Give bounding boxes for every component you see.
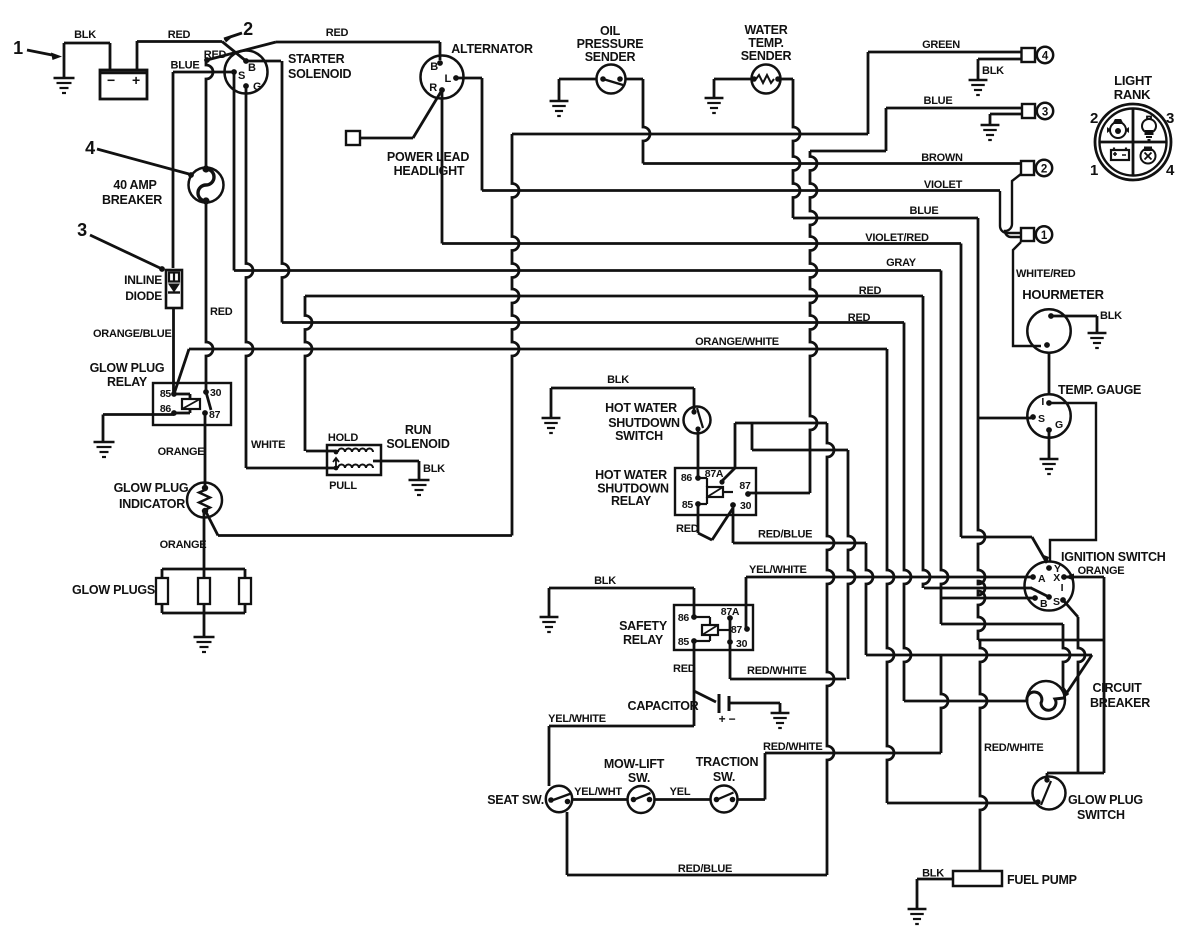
wire solenoid B to bus	[246, 60, 281, 63]
svg-text:INLINE: INLINE	[124, 273, 162, 287]
wire water temp sender to BLUE bus	[781, 78, 794, 81]
svg-text:I: I	[1061, 582, 1064, 594]
svg-text:2: 2	[243, 19, 253, 39]
svg-text:YEL/WHT: YEL/WHT	[574, 786, 622, 798]
svg-text:TRACTION: TRACTION	[696, 755, 759, 769]
wire indicator to green feed bus	[206, 512, 218, 536]
svg-text:RUN: RUN	[405, 423, 432, 437]
svg-text:S: S	[1038, 413, 1045, 425]
ground glow plugs	[203, 613, 206, 636]
ground temp gauge G	[1048, 430, 1051, 458]
svg-text:ORANGE/WHITE: ORANGE/WHITE	[695, 336, 779, 348]
svg-text:SOLENOID: SOLENOID	[288, 67, 352, 81]
wire glow plug switch top to orange	[1046, 773, 1049, 780]
svg-text:BLUE: BLUE	[924, 95, 953, 107]
glow plug relay switch arm	[206, 392, 211, 410]
svg-text:85: 85	[160, 388, 172, 400]
svg-text:30: 30	[740, 500, 752, 512]
wire switch to HWS relay 86	[697, 429, 700, 478]
wire RED drop	[923, 296, 930, 588]
svg-text:RED: RED	[673, 663, 696, 675]
svg-text:BLK: BLK	[594, 575, 616, 587]
wire drop 87A bus	[827, 423, 834, 875]
wire breaker to ignition row	[941, 623, 1063, 626]
svg-text:SEAT SW.: SEAT SW.	[487, 793, 544, 807]
svg-text:+: +	[719, 712, 726, 726]
wire breaker feed row	[904, 700, 1028, 703]
connector 1	[1021, 228, 1034, 241]
svg-text:PULL: PULL	[329, 480, 357, 492]
battery	[100, 70, 147, 99]
svg-text:X: X	[1053, 572, 1060, 584]
svg-text:B: B	[430, 61, 438, 73]
wire ignition B row	[941, 597, 1035, 600]
svg-text:ORANGE: ORANGE	[158, 446, 205, 458]
svg-text:40 AMP: 40 AMP	[113, 178, 156, 192]
svg-text:A: A	[1038, 573, 1046, 585]
wire VIOLET/RED drop	[960, 244, 963, 538]
svg-text:GLOW PLUGS: GLOW PLUGS	[72, 583, 155, 597]
svg-text:YEL/WHITE: YEL/WHITE	[749, 564, 807, 576]
svg-text:1: 1	[1041, 230, 1048, 242]
wire traction to RED/WHITE row	[738, 798, 766, 801]
wire ORANGE/WHITE from relay 85	[174, 349, 189, 394]
wire oil sender to BROWN bus	[625, 78, 643, 81]
svg-text:G: G	[253, 81, 261, 93]
safety relay coil	[702, 625, 718, 635]
svg-text:GLOW PLUG: GLOW PLUG	[1068, 793, 1143, 807]
connector 4	[1022, 48, 1036, 62]
svg-text:RELAY: RELAY	[611, 494, 652, 508]
svg-text:RED/BLUE: RED/BLUE	[678, 863, 732, 875]
svg-text:86: 86	[678, 612, 690, 624]
wire BLUE drop to temp gauge S	[978, 218, 985, 640]
svg-text:85: 85	[682, 499, 694, 511]
svg-text:S: S	[1053, 596, 1060, 608]
svg-text:ORANGE: ORANGE	[1078, 565, 1125, 577]
wire alternator R down	[441, 90, 444, 244]
wire BLUE solenoid S down / inline diode feed	[172, 72, 175, 268]
svg-text:GREEN: GREEN	[922, 39, 960, 51]
svg-text:GRAY: GRAY	[886, 257, 917, 269]
svg-text:87A: 87A	[721, 606, 740, 618]
svg-text:SENDER: SENDER	[741, 49, 792, 63]
svg-text:B: B	[248, 62, 256, 74]
starter solenoid	[225, 51, 268, 94]
svg-text:RED: RED	[168, 29, 191, 41]
ground glow plug relay 86	[103, 413, 174, 416]
wire to hold coil	[306, 450, 336, 453]
wire blue bus jog	[810, 150, 886, 153]
svg-text:+: +	[132, 72, 140, 88]
svg-text:SW.: SW.	[713, 770, 735, 784]
svg-text:HOURMETER: HOURMETER	[1022, 287, 1104, 302]
light rank bulb icon quadrant 4	[1141, 148, 1156, 164]
svg-text:OIL: OIL	[600, 24, 621, 38]
svg-text:87: 87	[209, 409, 221, 421]
svg-text:HOT WATER: HOT WATER	[595, 468, 667, 482]
svg-text:SOLENOID: SOLENOID	[386, 437, 450, 451]
svg-text:TEMP. GAUGE: TEMP. GAUGE	[1058, 383, 1141, 397]
svg-text:WHITE/RED: WHITE/RED	[1016, 268, 1076, 280]
wire temp gauge I loop to ignition Y	[1049, 403, 1096, 562]
svg-text:YEL/WHITE: YEL/WHITE	[548, 713, 606, 725]
wire RED breaker feed	[206, 60, 213, 169]
svg-text:I: I	[1041, 396, 1044, 408]
svg-text:INDICATOR: INDICATOR	[119, 497, 185, 511]
svg-text:4: 4	[1042, 51, 1049, 63]
svg-text:HEADLIGHT: HEADLIGHT	[394, 164, 465, 178]
svg-text:L: L	[445, 73, 452, 85]
svg-text:S: S	[238, 70, 245, 82]
run solenoid pull coil	[338, 465, 373, 468]
svg-text:WHITE: WHITE	[251, 439, 285, 451]
svg-text:WATER: WATER	[745, 23, 788, 37]
svg-text:BLK: BLK	[982, 65, 1004, 77]
ground oil pressure sender	[559, 78, 597, 81]
svg-text:RELAY: RELAY	[107, 375, 148, 389]
svg-text:B: B	[1040, 598, 1048, 610]
ground water temp sender	[714, 78, 752, 81]
svg-text:87: 87	[731, 624, 743, 636]
svg-text:ORANGE/BLUE: ORANGE/BLUE	[93, 328, 172, 340]
svg-text:BREAKER: BREAKER	[1090, 696, 1150, 710]
HWS relay coil	[707, 487, 723, 497]
svg-text:4: 4	[85, 138, 95, 158]
svg-text:87: 87	[739, 480, 751, 492]
wire WHITE solenoid G down	[246, 86, 253, 468]
svg-text:SWITCH: SWITCH	[1077, 808, 1125, 822]
ground battery negative	[63, 43, 66, 77]
wire ORANGE/WHITE drop	[887, 349, 894, 803]
wire drop 450 bus	[848, 450, 855, 679]
wire 87A up	[722, 468, 735, 481]
wire connector 2 to connector 1	[1005, 174, 1021, 237]
wire BLUE conn3 drop to HWS relay 87	[810, 151, 817, 493]
svg-text:HOT WATER: HOT WATER	[605, 401, 677, 415]
svg-text:CAPACITOR: CAPACITOR	[628, 699, 699, 713]
light rank battery icon quadrant 1	[1111, 148, 1129, 161]
wire VIOLET alternator L	[456, 77, 482, 80]
svg-text:FUEL PUMP: FUEL PUMP	[1007, 873, 1077, 887]
run solenoid hold coil	[338, 449, 373, 452]
ignition switch arm	[1031, 588, 1049, 597]
svg-text:SW.: SW.	[628, 771, 650, 785]
svg-text:SHUTDOWN: SHUTDOWN	[608, 416, 680, 430]
svg-text:MOW-LIFT: MOW-LIFT	[604, 757, 665, 771]
svg-text:4: 4	[1166, 162, 1175, 179]
svg-text:SWITCH: SWITCH	[615, 429, 663, 443]
svg-text:POWER LEAD: POWER LEAD	[387, 150, 469, 164]
svg-text:RED/BLUE: RED/BLUE	[758, 529, 812, 541]
svg-text:CIRCUIT: CIRCUIT	[1093, 681, 1143, 695]
wire RED/BLUE drop to breaker	[866, 543, 873, 655]
connector 3	[1022, 104, 1035, 118]
svg-text:BLK: BLK	[607, 374, 629, 386]
svg-text:1: 1	[1090, 162, 1098, 179]
light rank bulb icon quadrant 3	[1142, 117, 1156, 141]
svg-text:PRESSURE: PRESSURE	[577, 37, 644, 51]
svg-text:RELAY: RELAY	[623, 633, 664, 647]
svg-text:BLK: BLK	[74, 29, 96, 41]
svg-text:1: 1	[13, 38, 23, 58]
svg-text:−: −	[729, 712, 736, 726]
svg-text:RED: RED	[210, 306, 233, 318]
svg-text:3: 3	[1166, 110, 1174, 127]
svg-text:ORANGE: ORANGE	[160, 539, 207, 551]
svg-text:−: −	[107, 72, 115, 88]
svg-text:TEMP.: TEMP.	[748, 36, 783, 50]
svg-text:SENDER: SENDER	[585, 50, 636, 64]
svg-text:2: 2	[1041, 164, 1047, 176]
svg-text:2: 2	[1090, 110, 1098, 127]
svg-text:RED/WHITE: RED/WHITE	[747, 665, 806, 677]
svg-text:GLOW PLUG: GLOW PLUG	[90, 361, 165, 375]
svg-text:3: 3	[77, 220, 87, 240]
svg-text:86: 86	[681, 472, 693, 484]
wire RED2 drop	[904, 323, 911, 702]
wire row 640 to orange drop	[978, 639, 1104, 642]
fuel pump	[953, 871, 1002, 886]
svg-text:RANK: RANK	[1114, 87, 1151, 102]
svg-text:HOLD: HOLD	[328, 432, 358, 444]
svg-text:DIODE: DIODE	[125, 289, 162, 303]
svg-text:YEL: YEL	[670, 786, 691, 798]
svg-text:BREAKER: BREAKER	[102, 193, 162, 207]
svg-text:BLUE: BLUE	[171, 60, 200, 72]
svg-text:30: 30	[736, 638, 748, 650]
svg-text:RED/WHITE: RED/WHITE	[763, 741, 822, 753]
svg-text:BLK: BLK	[1100, 310, 1122, 322]
svg-text:3: 3	[1042, 107, 1048, 119]
ground capacitor	[729, 702, 780, 705]
svg-text:85: 85	[678, 636, 690, 648]
svg-text:G: G	[1055, 419, 1063, 431]
svg-text:BLK: BLK	[423, 463, 445, 475]
svg-text:BLUE: BLUE	[910, 205, 939, 217]
light rank lamp icon quadrant 2	[1110, 120, 1126, 138]
svg-text:RED/WHITE: RED/WHITE	[984, 742, 1043, 754]
ground connector 3	[990, 113, 1022, 116]
svg-text:GLOW PLUG: GLOW PLUG	[114, 481, 189, 495]
svg-text:RED: RED	[326, 27, 349, 39]
wire GRAY drop	[941, 271, 948, 625]
svg-text:IGNITION SWITCH: IGNITION SWITCH	[1061, 550, 1166, 564]
svg-text:R: R	[429, 82, 437, 94]
connector 2	[1021, 161, 1034, 175]
wire to safety relay 86	[693, 588, 696, 617]
svg-text:RED: RED	[676, 523, 699, 535]
svg-text:SAFETY: SAFETY	[619, 619, 668, 633]
wire VIOLET/RED to ignition Y	[961, 536, 1032, 539]
power lead headlight	[413, 90, 442, 138]
wire glow plug feed drop	[941, 655, 948, 753]
svg-text:STARTER: STARTER	[288, 52, 345, 66]
wire green feed bus	[512, 133, 868, 136]
glow plug relay coil	[182, 399, 200, 409]
wire hourmeter to temp gauge	[1048, 352, 1051, 395]
svg-text:LIGHT: LIGHT	[1114, 73, 1152, 88]
svg-text:ALTERNATOR: ALTERNATOR	[451, 42, 533, 56]
svg-text:30: 30	[210, 387, 222, 399]
wire glow plug switch row	[887, 802, 1038, 805]
wire ignition I drop	[1063, 600, 1078, 617]
wire 87A jog down	[751, 423, 754, 450]
